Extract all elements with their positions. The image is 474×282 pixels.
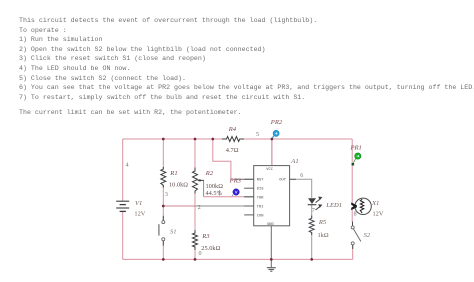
svg-text:PR2: PR2 — [270, 119, 283, 126]
wire OUT gray branch — [290, 179, 312, 198]
wire node2 R1 to TRI: left pink part — [163, 205, 195, 207]
probe PR3 — [232, 189, 239, 196]
svg-text:12V: 12V — [134, 210, 145, 217]
junction node 4 top rail RST branch — [211, 138, 214, 141]
svg-text:1kΩ: 1kΩ — [318, 232, 329, 239]
svg-text:PR3: PR3 — [229, 177, 242, 184]
svg-text:R2: R2 — [205, 170, 214, 177]
junction bottom rail R5 — [310, 258, 313, 261]
svg-text:THR: THR — [257, 197, 264, 201]
svg-text:6: 6 — [300, 173, 303, 179]
svg-text:44.5%: 44.5% — [206, 190, 223, 197]
switch S1 — [159, 216, 165, 246]
resistor R4 — [222, 137, 244, 142]
svg-text:R4: R4 — [228, 126, 237, 133]
probe PR1 — [352, 153, 361, 166]
probe PR2 — [272, 130, 279, 138]
LED LED1 — [308, 197, 323, 210]
svg-text:4: 4 — [126, 163, 129, 169]
wire node5 to RST pin — [213, 139, 236, 179]
pin stub TRI — [244, 205, 254, 207]
svg-text:3: 3 — [165, 192, 168, 198]
junction bottom rail S1 — [162, 258, 165, 261]
wire S1 to bottom rail — [162, 241, 164, 260]
resistor R5 — [309, 216, 314, 236]
svg-text:2: 2 — [198, 205, 201, 211]
ground — [267, 268, 276, 272]
potentiometer R2 — [193, 168, 204, 194]
wire R2 wiper down — [203, 180, 205, 196]
resistor R3 — [193, 230, 198, 250]
wire R2 branch upper — [194, 139, 196, 171]
wire GND pin vertical — [270, 226, 272, 268]
pin stub THR — [244, 196, 254, 198]
svg-text:4.7Ω: 4.7Ω — [226, 147, 239, 154]
svg-text:OUT: OUT — [279, 179, 286, 183]
pin stub DIS — [244, 187, 254, 189]
wire S2 bottom to rail — [352, 245, 354, 260]
junction bottom rail R3 — [194, 258, 197, 261]
svg-text:DIS: DIS — [257, 188, 264, 192]
wire left vertical V1 branch — [122, 139, 124, 201]
svg-text:8: 8 — [354, 212, 357, 218]
svg-text:S1: S1 — [170, 228, 177, 235]
svg-text:GND: GND — [267, 223, 274, 227]
wire right vertical (lamp branch) — [351, 139, 353, 203]
pin stub OUT — [290, 178, 296, 180]
svg-text:R1: R1 — [169, 170, 177, 177]
wire LED to R5 — [311, 205, 313, 219]
junction bottom rail GND — [270, 258, 273, 261]
svg-text:X1: X1 — [371, 200, 379, 207]
op-amp/timer U1 (555 box A1) — [254, 166, 290, 226]
junction node 4 top rail R1 — [162, 138, 165, 141]
R2 wiper arrow — [199, 179, 204, 181]
svg-text:7: 7 — [312, 208, 315, 214]
wire R1 branch upper — [162, 139, 164, 169]
svg-text:10.0kΩ: 10.0kΩ — [169, 181, 188, 188]
svg-text:VCC: VCC — [266, 168, 273, 172]
resistor R1 — [161, 167, 166, 188]
wire R3 bottom to rail — [194, 247, 196, 259]
svg-text:25.0kΩ: 25.0kΩ — [201, 245, 220, 252]
lamp X1 — [351, 198, 371, 214]
wire top rail right (node 5) — [244, 138, 352, 140]
net number labels — [126, 132, 357, 257]
svg-text:0: 0 — [199, 251, 202, 257]
battery V1 — [116, 201, 129, 211]
svg-text:100kΩ: 100kΩ — [206, 183, 224, 190]
svg-text:PR1: PR1 — [350, 145, 362, 152]
wire R1 bottom to S1 — [162, 185, 164, 220]
svg-text:V1: V1 — [135, 200, 142, 207]
wire R5 to bottom rail — [311, 233, 313, 260]
junction node 5 VCC — [271, 138, 274, 141]
wire top rail left (node 4) — [123, 138, 222, 140]
junction node 2 — [162, 205, 165, 208]
switch S2 — [351, 222, 361, 250]
svg-text:LED1: LED1 — [325, 202, 342, 209]
pin stub CON — [244, 214, 254, 216]
svg-text:RST: RST — [257, 179, 264, 183]
svg-text:5: 5 — [256, 132, 259, 138]
junction node 4 top rail R2 — [194, 138, 197, 141]
wire R2 bottom to R3 top — [194, 191, 196, 233]
op-amp U1 pin labels — [257, 168, 287, 227]
svg-text:TRI: TRI — [257, 205, 264, 209]
svg-text:A1: A1 — [290, 158, 298, 165]
svg-text:CON: CON — [257, 214, 264, 218]
svg-text:12V: 12V — [373, 211, 384, 218]
svg-text:S2: S2 — [364, 232, 371, 239]
wire bottom rail (node 0) — [123, 258, 353, 260]
labels: component refs and values — [134, 119, 383, 252]
wire node2 right gray part to TRI — [195, 205, 254, 207]
svg-text:R3: R3 — [201, 233, 210, 240]
svg-text:R5: R5 — [318, 219, 327, 226]
wire wiper to THR pin (PR3 net) — [204, 196, 245, 198]
wire VCC vertical — [271, 139, 273, 166]
pin stub RST — [244, 178, 254, 180]
